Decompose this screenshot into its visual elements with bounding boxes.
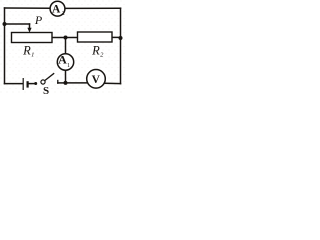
wire: right vertical: [120, 8, 122, 83]
wire: R1 to node M: [52, 37, 78, 39]
svg-text:A: A: [58, 53, 67, 67]
svg-text:R: R: [22, 44, 31, 58]
svg-text:A: A: [52, 3, 61, 15]
wire: mid node to voltmeter: [66, 82, 89, 84]
svg-text:R: R: [91, 44, 100, 58]
wire: switch to mid node: [58, 82, 66, 84]
ammeter A2 circle: [50, 1, 65, 16]
wire: node M down to ammeter A1: [65, 38, 67, 54]
battery long plate: [22, 78, 24, 90]
resistor R2 body: [78, 32, 113, 42]
svg-text:2: 2: [62, 11, 65, 17]
switch S left terminal dot: [34, 82, 37, 85]
wire: voltmeter to bottom-right corner: [105, 82, 121, 84]
battery short plate: [27, 81, 29, 87]
switch S pivot circle: [41, 80, 45, 84]
svg-text:1: 1: [67, 63, 70, 69]
wire: ammeter A1 down to bottom node: [65, 70, 67, 83]
svg-text:V: V: [92, 74, 101, 86]
node: junction dot on right wire: [119, 36, 123, 40]
svg-text:1: 1: [31, 52, 34, 59]
rheostat R1 body: [12, 33, 53, 43]
wire: top-right segment: [65, 7, 121, 9]
switch S right contact tick: [57, 80, 59, 84]
node M: junction dot between R1 and R2: [64, 36, 68, 40]
svg-text:S: S: [43, 85, 49, 95]
node: junction dot on bottom wire: [64, 81, 68, 85]
wire: rheostat slider arm horizontal: [5, 23, 30, 25]
wire: top-left segment: [5, 7, 51, 9]
wire: R2 to right vertical: [112, 36, 121, 38]
switch S blade: [45, 73, 55, 80]
ammeter A1 circle: [57, 54, 73, 70]
wire: battery to switch: [28, 83, 35, 85]
svg-text:P: P: [34, 13, 43, 27]
wire: rheostat slider arm vertical: [29, 24, 31, 30]
node: junction dot on left wire: [3, 22, 7, 26]
voltmeter V circle: [87, 70, 106, 89]
wire: left vertical: [4, 8, 6, 84]
rheostat slider arrowhead P: [27, 28, 31, 33]
wire: bottom-left to battery: [5, 83, 23, 85]
